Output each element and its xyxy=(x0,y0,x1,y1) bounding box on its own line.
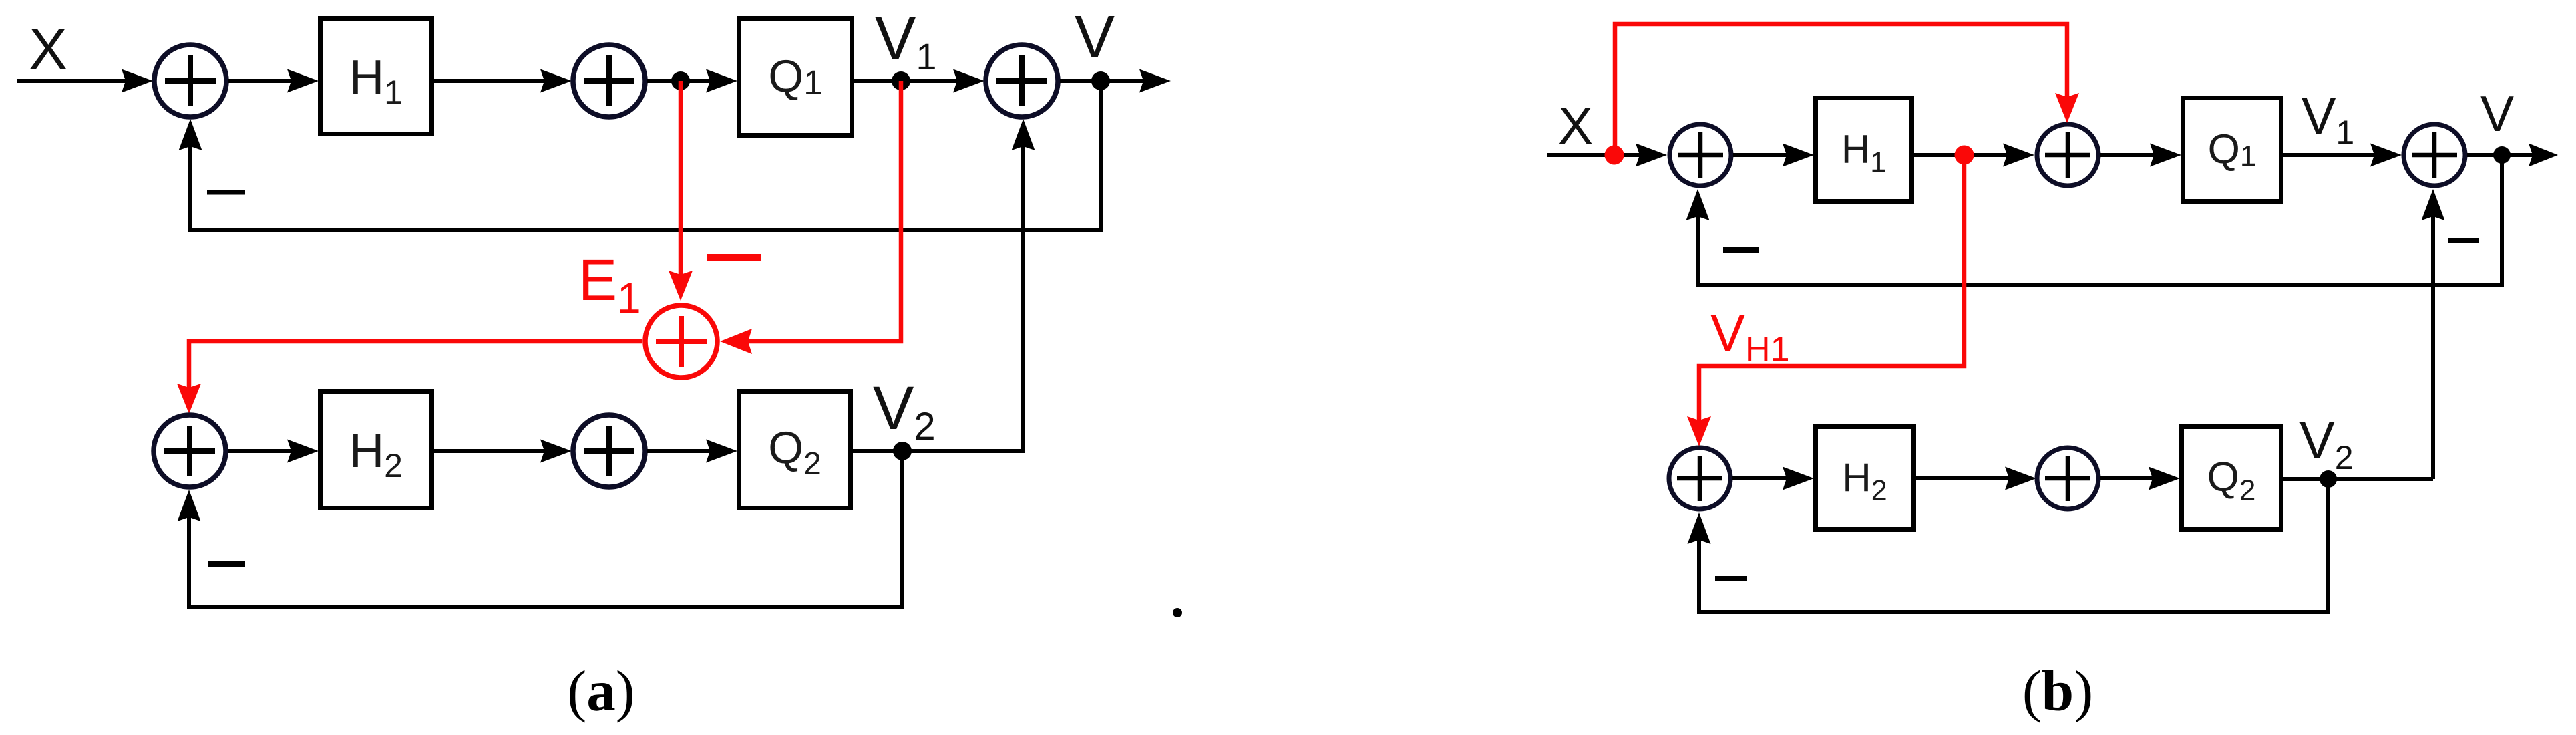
block Q1 quantizer (b) xyxy=(2183,98,2281,202)
wire summer B1 to block H2 (a) xyxy=(228,440,319,463)
summer C1 first-stage input adder (b) xyxy=(1670,124,1731,186)
svg-text:V1: V1 xyxy=(2302,88,2354,151)
wire block Q1 to summer A3 with node V1 (a) xyxy=(854,69,984,93)
block H2 loop filter (a) xyxy=(321,392,432,508)
wire feedback V2 to summer D1 (b) xyxy=(1688,478,2329,612)
summer B2 quantizer-input adder (a) xyxy=(573,415,645,487)
wire summer C3 to output V (b) xyxy=(2467,144,2558,167)
wire summer C1 to block H1 (b) xyxy=(1733,144,1814,167)
svg-text:E1: E1 xyxy=(578,248,641,322)
svg-text:H1: H1 xyxy=(349,51,403,111)
svg-text:V: V xyxy=(1075,4,1115,71)
summer A3 output adder (a) xyxy=(986,45,1058,117)
svg-text:H2: H2 xyxy=(349,424,403,484)
wire block Q1 to summer C3 (b) xyxy=(2283,144,2402,167)
minus sign at E1 adder (red) (a) xyxy=(707,254,761,261)
svg-text:VH1: VH1 xyxy=(1710,303,1790,369)
wire input X to summer A1 (a) xyxy=(17,69,153,93)
summer C3 output adder (b) xyxy=(2404,124,2465,186)
wire summer D2 to block Q2 (b) xyxy=(2100,467,2180,490)
svg-text:H1: H1 xyxy=(1841,127,1886,178)
node V node (b) xyxy=(2493,146,2511,164)
svg-text:X: X xyxy=(29,17,67,82)
svg-text:V: V xyxy=(2480,86,2514,142)
wire feedback V2 to summer B1 (a) xyxy=(178,451,903,607)
block Q2 quantizer (a) xyxy=(739,392,851,508)
wire summer A1 to block H1 (a) xyxy=(228,69,319,93)
block H1 loop filter (a) xyxy=(321,19,432,134)
wire summer A2 to block Q1 with node (a) xyxy=(647,69,737,93)
node red tap X (b) xyxy=(1605,146,1624,165)
wire red V1 tap to E1 summer (a) xyxy=(720,81,901,354)
svg-text:Q2: Q2 xyxy=(2207,454,2256,507)
wire summer B2 to block Q2 (a) xyxy=(647,440,737,463)
wire V2 up to summer C3 (b) xyxy=(2422,189,2445,479)
wire feedback V to summer A1 (a) xyxy=(179,81,1101,230)
block H1 loop filter (b) xyxy=(1816,98,1912,202)
wire red VH1 feed to summer D1 (b) xyxy=(1687,155,1964,446)
block Q2 quantizer (b) xyxy=(2182,427,2281,530)
summer D1 second-stage input adder (b) xyxy=(1669,448,1730,509)
svg-text:(b): (b) xyxy=(2022,658,2093,723)
wire V2 to summer A3 (a) xyxy=(902,119,1035,451)
svg-text:Q1: Q1 xyxy=(768,51,822,102)
summer A2 quantizer-input adder (a) xyxy=(573,45,645,117)
wire red E1 to second-stage summer B1 (a) xyxy=(177,341,642,414)
wire summer A3 to output V (a) xyxy=(1060,69,1171,93)
minus sign feedback B1 (a) xyxy=(208,561,245,567)
wire block H1 to summer C2 (b) xyxy=(1914,144,2034,167)
summer E1 error adder (red) (a) xyxy=(645,305,717,378)
svg-text:H2: H2 xyxy=(1842,456,1887,507)
node V2 node (b) xyxy=(2320,470,2337,488)
svg-text:V2: V2 xyxy=(873,374,936,448)
block Q1 quantizer (a) xyxy=(739,19,852,136)
period after diagram (a) xyxy=(1173,608,1182,617)
wire feedback V to summer C1 (b) xyxy=(1686,155,2503,285)
svg-text:Q1: Q1 xyxy=(2208,126,2257,172)
svg-text:V2: V2 xyxy=(2299,410,2354,476)
minus sign feedback D1 (b) xyxy=(1715,576,1747,581)
wire block H2 to summer D2 (b) xyxy=(1916,467,2036,490)
svg-text:(a): (a) xyxy=(567,658,634,723)
wire block H1 to summer A2 (a) xyxy=(434,69,572,93)
wire input X to summer C1 (b) xyxy=(1547,144,1667,167)
node V node (a) xyxy=(1091,71,1110,90)
node red tap VH1 (b) xyxy=(1955,146,1974,165)
wire red E1 tap from node after A2 (a) xyxy=(669,81,693,301)
summer D2 quantizer-input adder (b) xyxy=(2037,448,2098,509)
summer B1 second-stage input adder (a) xyxy=(154,415,226,487)
svg-text:V1: V1 xyxy=(875,5,937,78)
node V1 node (a) xyxy=(892,71,910,90)
wire block Q2 to corner with node V2 (b) xyxy=(2283,477,2433,481)
wire block Q2 to corner with node V2 (a) xyxy=(853,449,1023,453)
wire red X feed to summer C2 (b) xyxy=(1615,24,2079,155)
minus sign feedback A1 (a) xyxy=(207,190,245,195)
block H2 loop filter (b) xyxy=(1816,427,1914,530)
node after A2 (a) xyxy=(671,71,690,90)
wire summer D1 to block H2 (b) xyxy=(1732,467,1814,490)
summer C2 adder with X feed-in (b) xyxy=(2037,124,2098,186)
svg-text:Q2: Q2 xyxy=(768,422,821,482)
wire summer C2 to block Q1 (b) xyxy=(2100,144,2181,167)
svg-text:X: X xyxy=(1558,96,1593,155)
minus sign V2 into C3 (b) xyxy=(2448,238,2479,243)
node V2 node (a) xyxy=(893,442,912,460)
summer A1 first-stage input adder (a) xyxy=(154,45,226,117)
minus sign feedback C1 (b) xyxy=(1723,247,1759,253)
wire block H2 to summer B2 (a) xyxy=(434,440,572,463)
